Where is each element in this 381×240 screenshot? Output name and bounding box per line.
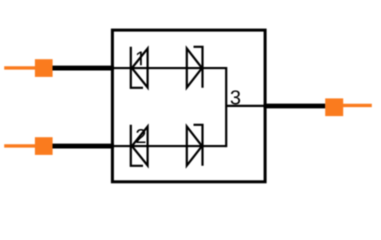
pin label 3: [231, 90, 240, 104]
terminal pad (top-left orange square): [35, 59, 53, 77]
terminal pad (bottom-left orange square): [35, 137, 53, 155]
wire (bottom row internal): [113, 145, 226, 147]
wire (right thick black output): [264, 104, 326, 109]
diode D3 (bottom-left, pointing left): [131, 125, 148, 166]
wire (junction vertical): [225, 67, 227, 147]
wire (top-left thick black input): [53, 66, 115, 71]
diode D4 (bottom-right, pointing right): [187, 125, 203, 166]
pin label 1: [137, 51, 142, 65]
wire (top-left orange lead): [4, 66, 35, 69]
pin label 2: [136, 129, 145, 143]
diode D2 (top-right, pointing right): [187, 47, 203, 88]
wire (bottom-left orange lead): [4, 144, 35, 147]
wire (top row internal): [113, 67, 226, 69]
wire (output stub): [226, 105, 264, 107]
wire (right orange lead): [343, 104, 372, 107]
diode D1 (top-left, pointing left): [131, 47, 148, 88]
component body U1 (rectifier box outline): [112, 30, 265, 182]
wire (bottom-left thick black input): [53, 144, 115, 149]
terminal pad (right orange square): [325, 98, 343, 116]
